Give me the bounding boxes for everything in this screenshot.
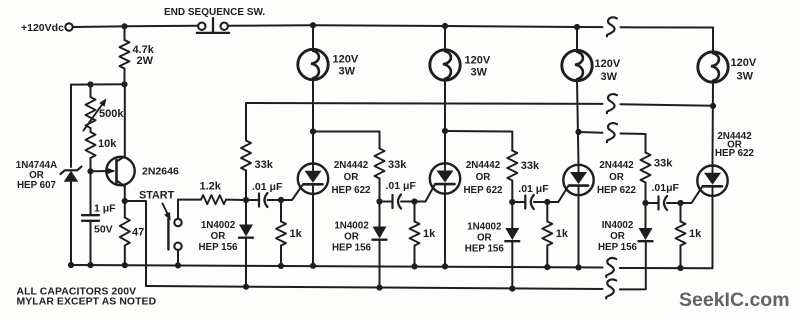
wire gate stage 3 to SCR: [547, 186, 568, 202]
node feedback rail to SCR4 anode column: [710, 103, 716, 109]
node cap C1 to cathode rail: [87, 262, 93, 268]
svg-text:120V: 120V: [731, 57, 757, 69]
break mark in trigger bus: [606, 279, 616, 298]
wire top rail to lamp I4: [712, 28, 714, 54]
node SCR Q2 cathode on rail: [310, 263, 316, 269]
svg-text:.01 μF: .01 μF: [252, 181, 283, 193]
wire end-sequence switch to lamp I1 column: [228, 24, 313, 27]
svg-text:120V: 120V: [333, 54, 359, 66]
resistor 33k stage 1: [241, 141, 274, 201]
resistor R4 47: [120, 201, 144, 265]
lamp I1 120V 3W: [298, 49, 359, 79]
resistor 1k stage 1: [276, 200, 303, 266]
node anode Q3 coupling junction: [442, 128, 448, 134]
svg-text:2N2646: 2N2646: [142, 166, 179, 178]
svg-text:1N4002: 1N4002: [201, 220, 236, 231]
wire cathode return rail (left of break): [71, 265, 603, 268]
svg-text:OR: OR: [344, 172, 359, 183]
SCR Q2 2N4442 / HEP 622: [298, 160, 371, 196]
wire feedback rail right part: [621, 104, 714, 106]
switch S2 END SEQUENCE SW. (normally-closed pushbutton): [164, 7, 265, 33]
break mark in feedback rail: [607, 94, 617, 113]
diode 1N4002 stage 4 (HEP 156): [598, 203, 653, 253]
svg-text:HEP 622: HEP 622: [715, 148, 755, 159]
resistor 33k stage 2: [375, 149, 408, 202]
wire cathode rail right part up to SCR4 cathode: [620, 196, 713, 268]
break mark in cathode rail: [606, 258, 616, 277]
svg-text:OR: OR: [477, 233, 492, 244]
wire top rail to lamp I3: [576, 27, 578, 52]
zener diode D5 1N4744A / HEP 607: [16, 85, 82, 265]
svg-text:MYLAR EXCEPT AS NOTED: MYLAR EXCEPT AS NOTED: [17, 297, 157, 308]
lamp I3 120V 3W: [562, 50, 621, 83]
wire emitter node to UJT: [91, 170, 114, 172]
wire lamp I3 to SCR Q4 anode: [577, 80, 579, 165]
wire lamp I1 to SCR Q2 anode: [312, 79, 314, 164]
wire anode3 toward break: [579, 131, 603, 134]
svg-text:OR: OR: [610, 231, 625, 242]
svg-text:OR: OR: [344, 232, 359, 243]
svg-text:33k: 33k: [388, 159, 407, 171]
potentiometer R2 500k (variable): [84, 85, 125, 131]
node diode 3 to trigger bus: [509, 286, 515, 292]
node SCR Q3 cathode on rail: [442, 263, 448, 269]
lamp I2 120V 3W: [430, 50, 491, 80]
svg-text:33k: 33k: [654, 158, 673, 170]
terminal +120Vdc supply input: [21, 22, 73, 34]
node A top-rail / 4.7k junction: [121, 23, 127, 29]
capacitor .01uF stage 1: [246, 181, 283, 207]
svg-text:10k: 10k: [98, 138, 117, 150]
wire SCR Q2 cathode to rail: [312, 194, 314, 266]
svg-text:2N4442: 2N4442: [334, 160, 369, 171]
node zener to cathode rail: [68, 262, 74, 268]
capacitor C1 1uF 50V (timing): [82, 171, 116, 265]
diode 1N4002 stage 3 (HEP 156): [465, 202, 520, 289]
svg-text:50V: 50V: [94, 224, 113, 236]
svg-text:OR: OR: [476, 172, 491, 183]
svg-text:END SEQUENCE SW.: END SEQUENCE SW.: [164, 7, 265, 18]
resistor R3 10k: [86, 128, 118, 169]
node 1k stage 2 to cathode rail: [411, 263, 417, 269]
resistor R1 4.7k 2W: [120, 26, 155, 84]
node diode 2 to trigger bus: [376, 285, 382, 291]
svg-text:500k: 500k: [99, 108, 124, 120]
svg-text:120V: 120V: [465, 55, 491, 67]
capacitor .01uF stage 2: [380, 180, 417, 209]
wire top +120V rail segment lamp1-lamp2: [313, 24, 445, 27]
svg-text:SeekIC.com: SeekIC.com: [679, 289, 790, 311]
node lamp I3 to top rail: [574, 24, 580, 30]
node anode Q4 coupling junction: [575, 129, 581, 135]
wire gate stage 1 to SCR: [281, 184, 303, 200]
svg-text:3W: 3W: [339, 66, 356, 78]
node start switch to cathode rail: [175, 262, 181, 268]
svg-text:OR: OR: [211, 231, 226, 242]
capacitor .01uF stage 3: [512, 183, 549, 209]
wire 1.2k to stage-1 gate node: [226, 199, 246, 201]
svg-text:.01μF: .01μF: [652, 182, 680, 194]
svg-text:IN4002: IN4002: [602, 220, 634, 231]
resistor 1k stage 2: [410, 202, 437, 267]
wire trigger bus (UJT pulses to diodes) left of break: [146, 286, 603, 289]
svg-text:1 μF: 1 μF: [94, 203, 116, 215]
diode 1N4002 stage 1 (HEP 156): [198, 200, 253, 287]
wire anode1 to 33k no.2: [313, 132, 380, 149]
wire break to 33k no.4: [621, 134, 646, 153]
svg-text:HEP 156: HEP 156: [198, 242, 238, 253]
svg-text:3W: 3W: [601, 71, 618, 83]
node stage 4 storage node (33k/diode/cap): [642, 200, 648, 206]
resistor 33k stage 4: [641, 153, 674, 204]
node lamp I2 to top rail: [442, 23, 448, 29]
svg-text:HEP 622: HEP 622: [331, 185, 371, 196]
svg-text:3W: 3W: [471, 67, 488, 79]
svg-text:33k: 33k: [521, 160, 540, 172]
svg-text:HEP 622: HEP 622: [597, 185, 637, 196]
wire top rail to lamp I2: [444, 26, 446, 51]
resistor 1k stage 4: [676, 203, 703, 268]
svg-text:1N4002: 1N4002: [467, 222, 502, 233]
node SCR Q4 cathode on rail: [575, 264, 581, 270]
svg-text:HEP 156: HEP 156: [598, 242, 638, 253]
svg-text:START: START: [139, 190, 175, 202]
node B1 (UJT base-1): [122, 198, 128, 204]
wire node A to end-sequence switch: [125, 25, 198, 28]
svg-text:2W: 2W: [137, 55, 154, 67]
wire SCR Q3 cathode to rail: [444, 194, 446, 267]
node B2 bus (4.7k bottom / UJT base-2): [121, 81, 127, 87]
unijunction transistor Q1 2N2646: [106, 156, 179, 186]
wire top rail to lamp I1: [312, 25, 314, 50]
SCR Q4 2N4442 / HEP 622: [563, 160, 636, 196]
wire node B2 to zener branch: [71, 83, 125, 85]
node stage 1 gate node (cap/1k/gate): [278, 197, 284, 203]
svg-text:1.2k: 1.2k: [200, 181, 222, 193]
wire +120Vdc terminal to node A: [73, 25, 122, 28]
svg-text:47: 47: [132, 227, 144, 239]
wire UJT base-1 down: [124, 187, 126, 202]
svg-text:OR: OR: [609, 172, 624, 183]
wire trigger bus right part up to diode4: [620, 242, 646, 290]
svg-text:33k: 33k: [255, 159, 274, 171]
svg-text:HEP 156: HEP 156: [465, 244, 505, 255]
svg-text:1k: 1k: [423, 228, 436, 240]
svg-text:HEP 607: HEP 607: [17, 180, 57, 191]
wire UJT base-1 to trigger bus: [125, 201, 146, 286]
wire feedback rail (last anode to 33k no.1) left part: [246, 103, 603, 141]
node stage 3 gate node (cap/1k/gate): [544, 199, 550, 205]
wire top +120V rail break to lamp4 corner: [621, 27, 714, 52]
node stage 3 storage node (33k/diode/cap): [509, 199, 515, 205]
svg-text:.01 μF: .01 μF: [518, 183, 549, 195]
node 1k stage 1 to cathode rail: [278, 263, 284, 269]
SCR Q5 2N4442 / HEP 622: [697, 131, 754, 196]
svg-text:HEP 622: HEP 622: [463, 185, 503, 196]
node stage 1 storage node (33k/diode/cap): [243, 197, 249, 203]
wire lamp I2 to SCR Q3 anode: [444, 79, 446, 163]
node lamp I1 to top rail: [310, 22, 316, 28]
lamp I4 120V 3W: [698, 52, 757, 83]
svg-text:+120Vdc: +120Vdc: [21, 22, 64, 34]
node stage 2 gate node (cap/1k/gate): [411, 198, 417, 204]
wire gate stage 4 to SCR: [681, 186, 703, 203]
svg-text:2N4442: 2N4442: [599, 160, 634, 171]
wire anode2 to 33k no.3: [445, 131, 512, 151]
SCR Q3 2N4442 / HEP 622: [430, 160, 503, 196]
svg-text:.01 μF: .01 μF: [386, 180, 417, 192]
wire SCR Q4 cathode to rail: [578, 195, 580, 267]
svg-text:1k: 1k: [689, 228, 702, 240]
resistor 1k stage 3: [542, 202, 569, 267]
wire lamp I4 to SCR Q5 anode: [712, 81, 715, 165]
node 1k stage 4 to cathode rail: [677, 265, 683, 271]
node anode Q2 coupling junction: [310, 128, 316, 134]
wire gate stage 2 to SCR: [415, 184, 436, 201]
node 47 to cathode rail: [122, 262, 128, 268]
watermark SeekIC.com: [679, 289, 790, 311]
svg-text:3W: 3W: [737, 71, 754, 83]
node 1k stage 3 to cathode rail: [544, 264, 550, 270]
capacitor .01uF stage 4: [646, 182, 681, 210]
note text ALL CAPACITORS: [17, 286, 157, 307]
node diode 1 to trigger bus: [243, 284, 249, 290]
node stage 4 gate node (cap/1k/gate): [677, 200, 683, 206]
wire start switch to 1.2k: [178, 199, 201, 201]
wire top +120V rail segment lamp2-lamp3: [445, 26, 579, 27]
node stage 2 storage node (33k/diode/cap): [376, 198, 382, 204]
diode 1N4002 stage 2 (HEP 156): [332, 202, 387, 288]
resistor R5 1.2k: [200, 181, 227, 205]
wire UJT base-2 up to node B2: [124, 84, 126, 156]
svg-text:2N4442: 2N4442: [466, 160, 501, 171]
svg-text:1k: 1k: [556, 228, 569, 240]
switch S1 START (normally-open pushbutton): [139, 190, 182, 266]
break mark in top rail: [607, 17, 617, 36]
node E (UJT emitter / timing cap): [87, 168, 93, 174]
svg-text:120V: 120V: [595, 58, 621, 70]
break mark in anode3 coupling wire: [607, 123, 617, 142]
wire top +120V rail segment lamp3 to break: [579, 26, 603, 28]
svg-text:HEP 156: HEP 156: [332, 243, 372, 254]
node pot-top junction: [87, 81, 93, 87]
svg-text:1k: 1k: [290, 228, 303, 240]
resistor 33k stage 3: [507, 151, 540, 203]
svg-text:1N4002: 1N4002: [334, 221, 369, 232]
